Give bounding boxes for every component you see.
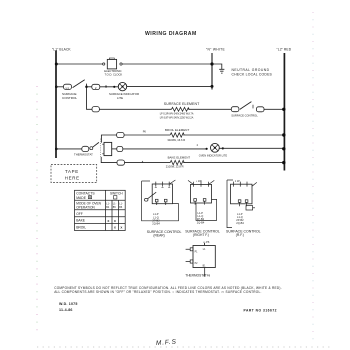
wire bake branch [101,157,117,163]
wire branch vertical to element row [87,84,93,110]
junction N bottom [211,85,214,88]
thermostat S3 pivot [90,147,93,150]
svg-text:SURFACE INDICATOR: SURFACE INDICATOR [109,92,139,96]
clock U1 terminal left [103,63,105,65]
svg-text:BAKE ELEMENT: BAKE ELEMENT [168,155,191,159]
svg-text:OPERATION: OPERATION [76,206,95,210]
svg-text:X: X [107,219,109,223]
wire resistor to switch S2 [188,108,231,110]
svg-text:L1-: L1- [106,202,110,205]
switch detail C SURFACE CONTROL (R.F.) [227,180,257,228]
svg-text:X: X [114,226,116,230]
guide dots right [312,12,314,345]
svg-text:M.F.S: M.F.S [156,339,177,347]
thermostat S3 terminal [82,146,89,151]
junction L2 lamp row [282,147,285,150]
svg-text:11-4-86: 11-4-86 [59,308,73,312]
junction L2 bake [282,161,285,164]
switch S2 tick [252,105,254,109]
switch S1 terminal 2 [92,84,100,89]
contacts table [75,190,126,230]
wire lamp to L2 [219,147,284,149]
svg-text:BAKE: BAKE [76,219,86,223]
wire lamp to N [127,86,212,88]
svg-text:LR-3,8T-WV-240V,1250 W,5.2A: LR-3,8T-WV-240V,1250 W,5.2A [160,117,194,120]
svg-text:THERMOSTAT: THERMOSTAT [74,153,93,157]
svg-text:(R.F.): (R.F.) [236,233,244,237]
svg-text:L1: L1 [203,249,206,251]
junction L2 broil [282,133,285,136]
svg-text:P8: P8 [207,273,211,277]
svg-text:3400W, 16.6 R: 3400W, 16.6 R [167,138,185,142]
svg-text:HERE: HERE [65,175,80,180]
svg-text:2Q-B4: 2Q-B4 [152,222,160,226]
wire terminal to lamp [123,148,207,150]
svg-text:(RIGHT F.): (RIGHT F.) [193,233,209,237]
svg-text:LF-5,3R-WV-240V,2460 W,8.7A: LF-5,3R-WV-240V,2460 W,8.7A [160,113,194,116]
svg-text:THERMOSTAT: THERMOSTAT [185,273,207,277]
wire element row to resistor [99,108,171,110]
svg-text:L1-: L1- [113,202,117,205]
wire clock to N [122,63,212,65]
wire broil branch [101,135,116,143]
switch detail A SURFACE CONTROL (REAR) [142,180,179,221]
junction before oven lamp [206,148,208,150]
svg-text:PART NO 316672: PART NO 316672 [244,309,278,313]
L2 bus wire [283,53,285,171]
svg-text:2Q-B4: 2Q-B4 [197,220,205,224]
svg-text:P2: P2 [195,263,199,265]
wire top row L1 to clock [56,63,103,65]
tick on wire [105,86,106,88]
guide dots bottom [37,346,331,348]
svg-text:"L1" BLACK: "L1" BLACK [52,48,71,52]
switch S2 arm [240,102,252,110]
svg-text:ALL COMPONENTS ARE SHOWN IN "O: ALL COMPONENTS ARE SHOWN IN "OFF" OR "RE… [54,290,261,294]
tick on bake wire [142,161,143,162]
svg-text:2100W, 22.8 R: 2100W, 22.8 R [166,164,184,168]
svg-text:B5: B5 [113,206,117,209]
wire L1 to surface control [56,86,64,88]
junction at N [210,62,213,65]
svg-text:2Q-B4: 2Q-B4 [236,221,244,225]
L1 bus wire [55,51,57,159]
wire block to terminal [112,148,117,150]
wire terminal 2 to lamp [100,86,118,88]
switch detail B SURFACE CONTROL (RIGHT F.) [188,180,217,220]
svg-text:L1: L1 [66,86,70,90]
clock U1 terminal right [120,63,122,65]
svg-text:BROIL: BROIL [76,226,86,230]
terminal oval surface element left [92,107,99,112]
svg-text:LITE: LITE [117,96,123,100]
ground neutral ground symbol [219,69,224,73]
svg-text:B1: B1 [203,265,207,267]
thermostat S3 arm [93,142,99,147]
svg-text:W.D. 1075: W.D. 1075 [59,302,78,306]
linkage dashed [99,139,101,157]
svg-text:(REAR): (REAR) [153,233,164,237]
junction L1 top [55,63,58,66]
terminal broil [117,132,125,137]
svg-text:SURFACE ELEMENT: SURFACE ELEMENT [164,102,200,106]
svg-text:CONTROL: CONTROL [62,96,77,100]
svg-text:T.O.D. CLOCK: T.O.D. CLOCK [105,72,123,76]
wire branch to terminal 2 [87,86,92,88]
tape here box [51,165,97,183]
svg-text:P1: P1 [195,251,199,253]
svg-text:X: X [120,226,122,230]
svg-text:"L2" RED: "L2" RED [277,48,292,52]
wire terminal to broil resistor [124,134,170,136]
svg-text:OFF: OFF [76,212,83,216]
svg-text:1 1P: 1 1P [235,180,240,183]
guide dots left [36,86,38,331]
svg-text:TAPE: TAPE [65,169,79,174]
terminal bake [117,160,125,165]
junction after oven lamp [222,147,224,149]
lamp DS2 OVEN INDICATOR LITE [211,143,220,152]
switch S1 arm [73,80,85,88]
junction before lamp [113,86,115,88]
svg-text:B6: B6 [119,206,123,209]
N neutral wire [211,53,213,90]
svg-text:X: X [114,219,116,223]
thermostat detail box [186,243,216,277]
switch S2 terminal left [231,107,239,112]
wire switch S2 to L2 [264,108,284,110]
junction L1 thermostat row [55,148,58,151]
svg-text:MADE: MADE [76,196,87,200]
svg-text:BROIL ELEMENT: BROIL ELEMENT [165,128,189,132]
wire N to ground stub [212,64,222,69]
switch S1 terminal L1 [64,84,72,89]
junction L2 element row [282,108,285,111]
svg-text:OVEN INDICATOR LITE: OVEN INDICATOR LITE [199,154,228,158]
switch S2 terminal right [256,107,264,112]
wire broil to L2 [183,134,284,136]
svg-text:WIRING DIAGRAM: WIRING DIAGRAM [145,31,197,37]
thermostat output terminal [117,147,123,152]
svg-text:SWITCH: SWITCH [110,191,123,195]
svg-text:▭ P6: ▭ P6 [203,240,210,244]
wire terminal to bake resistor [125,162,171,164]
svg-text:"N" WHITE: "N" WHITE [206,48,225,52]
thermostat body block [104,142,112,155]
svg-text:SURFACE CONTROL: SURFACE CONTROL [231,114,258,118]
wire bake to L2 [183,162,284,164]
svg-text:• 10K: • 10K [196,180,202,183]
svg-text:2: 2 [197,144,199,147]
svg-text:CHECK LOCAL CODES: CHECK LOCAL CODES [232,73,273,77]
lamp DS1 SURFACE INDICATOR LITE [118,82,126,90]
svg-text:L1-: L1- [119,202,123,205]
svg-text:NEUTRAL GROUND: NEUTRAL GROUND [232,68,270,72]
svg-text:P6: P6 [143,129,147,133]
junction L1 row2 [55,86,58,89]
wire L1 to thermostat [56,148,82,150]
svg-text:B4: B4 [106,206,110,209]
clock U1 ELECTRONIC T.O.D. CLOCK [107,59,116,69]
junction branch [85,86,88,89]
